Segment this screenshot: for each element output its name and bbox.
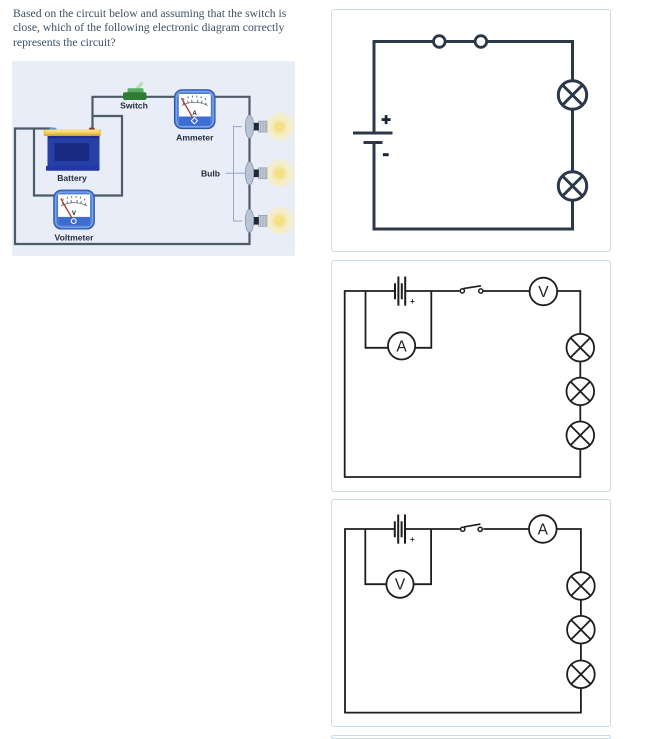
- wire ammeter subloop: [366, 291, 432, 348]
- circuit illustration: [12, 61, 295, 256]
- option box B: [331, 260, 611, 492]
- lamp L4: [567, 378, 595, 406]
- svg-text:A: A: [538, 522, 549, 539]
- battery B1 long plate: [353, 132, 393, 135]
- wire top left segment: [345, 291, 581, 477]
- minus label: [383, 153, 389, 156]
- battery B1 short plate: [364, 141, 383, 144]
- wire main loop A: [374, 42, 573, 230]
- voltmeter V: [530, 278, 558, 306]
- labels: [55, 101, 221, 243]
- lamp L2: [558, 172, 586, 200]
- ammeter A: [388, 332, 415, 359]
- svg-text:Battery: Battery: [57, 173, 87, 183]
- switch S2: [460, 289, 464, 293]
- switch S3: [461, 527, 465, 531]
- lamp L6: [567, 572, 595, 600]
- svg-text:A: A: [396, 338, 407, 355]
- lamp L1: [558, 81, 586, 109]
- ammeter: [175, 90, 216, 129]
- svg-text:Ammeter: Ammeter: [176, 132, 214, 142]
- option box A: [331, 9, 611, 252]
- battery B3 plates: [395, 515, 405, 544]
- bulb 1: [245, 112, 294, 140]
- schematic option B: [331, 260, 611, 492]
- svg-text:A: A: [192, 110, 197, 117]
- lamp L5: [567, 422, 595, 450]
- wire voltmeter left branch: [34, 129, 56, 196]
- schematic option A: [331, 10, 611, 252]
- switch S1 contact circles: [434, 36, 446, 48]
- question text: [13, 7, 323, 50]
- voltmeter: [54, 190, 95, 229]
- bulb 3: [245, 207, 294, 235]
- wire battery to switch: [405, 528, 460, 530]
- lamp L8: [567, 661, 595, 689]
- wire top left segment: [345, 529, 581, 713]
- svg-text:V: V: [395, 577, 406, 594]
- option box C: [331, 499, 611, 727]
- bulb 2: [245, 159, 294, 187]
- switch: [123, 84, 147, 101]
- svg-text:Switch: Switch: [120, 101, 148, 111]
- option box D (cut off): [331, 735, 611, 739]
- battery: [44, 128, 102, 171]
- svg-text:+: +: [410, 535, 415, 544]
- wire voltmeter right branch: [92, 116, 122, 196]
- lamp L3: [567, 334, 595, 362]
- wire main loop: [15, 97, 250, 244]
- lamp L7: [567, 616, 595, 644]
- bulb bracket: [226, 126, 246, 222]
- plus label: [382, 115, 391, 124]
- voltmeter V: [386, 571, 413, 598]
- svg-text:Bulb: Bulb: [201, 168, 220, 178]
- wire battery to switch: [405, 290, 459, 292]
- svg-text:V: V: [538, 284, 549, 301]
- wire voltmeter subloop: [365, 529, 431, 584]
- svg-text:Voltmeter: Voltmeter: [55, 232, 95, 242]
- battery B2 plates: [395, 277, 405, 306]
- svg-text:+: +: [410, 297, 415, 306]
- schematic option C: [331, 499, 611, 727]
- ammeter A: [529, 515, 557, 543]
